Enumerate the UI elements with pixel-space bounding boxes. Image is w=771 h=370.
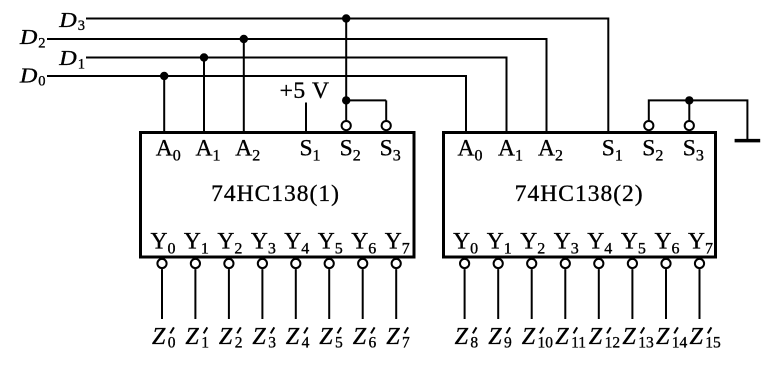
wire U1 Y0 output stub (161, 269, 163, 319)
svg-text:10: 10 (538, 335, 554, 352)
svg-text:D: D (58, 8, 77, 32)
inversion bubble U1 Y2 (224, 259, 233, 268)
svg-text:8: 8 (470, 335, 478, 352)
inversion bubble U2 Y7 (695, 259, 704, 268)
svg-text:Z: Z (690, 324, 704, 350)
svg-text:Z: Z (319, 324, 333, 350)
wire U1 Y2 output stub (228, 269, 230, 319)
inversion bubble U2 Y2 (527, 259, 536, 268)
junction U1 S2/S3 node (342, 96, 350, 104)
inversion bubble U1 Y0 (157, 259, 166, 268)
svg-text:2: 2 (235, 335, 243, 352)
wire U2 Y5 output stub (631, 269, 633, 319)
decoder U2 74HC138(2) box (444, 133, 716, 258)
svg-text:12: 12 (605, 335, 621, 352)
svg-text:1: 1 (78, 56, 85, 72)
inversion bubble U1 Y5 (325, 259, 334, 268)
svg-text:74HC138(1): 74HC138(1) (211, 181, 340, 207)
wire U2 Y4 output stub (598, 269, 600, 319)
inversion bubble U1 Y7 (392, 259, 401, 268)
wire node to U1 S2 bubble (345, 100, 347, 121)
junction D1/U1-A1 (200, 53, 208, 61)
svg-text:11: 11 (571, 335, 586, 352)
svg-text:Z: Z (656, 324, 670, 350)
svg-text:D: D (19, 63, 38, 87)
wire U1 Y6 output stub (362, 269, 364, 319)
wire U1 Y4 output stub (295, 269, 297, 319)
wire U2 Y6 output stub (665, 269, 667, 319)
wire down to U1 S3 bubble (385, 100, 387, 121)
wire net D3 to U2 S1 (86, 19, 608, 133)
wire D2 branch to U1 A2 (243, 39, 245, 133)
svg-text:Z: Z (555, 324, 569, 350)
wire net D1 to U2 A1 (86, 58, 507, 133)
junction D0/U1-A0 (160, 72, 168, 80)
inversion bubble U1 Y4 (291, 259, 300, 268)
svg-text:5: 5 (335, 335, 343, 352)
svg-text:9: 9 (504, 335, 512, 352)
svg-text:Z: Z (219, 324, 233, 350)
junction U2 S3 node (685, 96, 693, 104)
svg-text:7: 7 (402, 335, 410, 352)
inversion bubble U2 S2 (644, 121, 653, 130)
svg-text:74HC138(2): 74HC138(2) (515, 181, 644, 207)
wire U2 Y3 output stub (564, 269, 566, 319)
svg-text:Z: Z (455, 324, 469, 350)
svg-text:Z: Z (252, 324, 266, 350)
wire D3 branch down to U1 enable node (345, 19, 347, 101)
svg-text:D: D (19, 25, 38, 49)
wire node down to U2 S3 bubble (688, 100, 690, 121)
wire net D0 to U2 A0 (47, 76, 466, 133)
svg-text:Z: Z (353, 324, 367, 350)
svg-text:0: 0 (38, 74, 45, 90)
svg-text:Z: Z (152, 324, 166, 350)
wire U2 Y1 output stub (497, 269, 499, 319)
svg-text:Z: Z (386, 324, 400, 350)
inversion bubble U2 Y4 (594, 259, 603, 268)
wire U1 Y7 output stub (395, 269, 397, 319)
svg-text:Z: Z (286, 324, 300, 350)
svg-text:13: 13 (638, 335, 654, 352)
wire U2 S2 up across and down to ground (649, 100, 748, 139)
wire node across to U1 S3 (346, 99, 386, 101)
inversion bubble U2 Y6 (661, 259, 670, 268)
wire +5V stub to U1 S1 (305, 103, 307, 133)
wire U2 Y2 output stub (531, 269, 533, 319)
wire U2 Y7 output stub (699, 269, 701, 319)
wire U2 Y0 output stub (464, 269, 466, 319)
svg-text:Z: Z (185, 324, 199, 350)
inversion bubble U1 S2 (342, 121, 351, 130)
svg-text:0: 0 (168, 335, 176, 352)
wire U1 Y3 output stub (261, 269, 263, 319)
svg-text:Z: Z (622, 324, 636, 350)
inversion bubble U1 Y3 (258, 259, 267, 268)
inversion bubble U1 Y6 (358, 259, 367, 268)
junction D3 branch (342, 14, 350, 22)
svg-text:+5 V: +5 V (280, 78, 330, 104)
inversion bubble U2 S3 (685, 121, 694, 130)
svg-text:6: 6 (369, 335, 377, 352)
inversion bubble U2 Y5 (628, 259, 637, 268)
svg-text:3: 3 (268, 335, 276, 352)
wire U1 Y5 output stub (328, 269, 330, 319)
svg-text:Z: Z (522, 324, 536, 350)
inversion bubble U2 Y0 (460, 259, 469, 268)
inversion bubble U1 S3 (382, 121, 391, 130)
inversion bubble U2 Y3 (561, 259, 570, 268)
inversion bubble U1 Y1 (191, 259, 200, 268)
wire D0 branch to U1 A0 (163, 76, 165, 133)
decoder U1 74HC138(1) box (141, 133, 415, 258)
svg-text:15: 15 (705, 335, 721, 352)
svg-text:D: D (58, 46, 77, 70)
svg-text:3: 3 (78, 18, 85, 34)
svg-text:Z: Z (589, 324, 603, 350)
ground symbol (735, 139, 761, 143)
svg-text:14: 14 (672, 335, 688, 352)
wire U1 Y1 output stub (194, 269, 196, 319)
inversion bubble U2 Y1 (494, 259, 503, 268)
svg-text:1: 1 (201, 335, 209, 352)
svg-text:4: 4 (302, 335, 310, 352)
wire D1 branch to U1 A1 (203, 58, 205, 133)
svg-text:Z: Z (488, 324, 502, 350)
junction D2/U1-A2 (240, 35, 248, 43)
svg-text:2: 2 (38, 35, 45, 51)
wire net D2 to U2 A2 (47, 39, 547, 133)
